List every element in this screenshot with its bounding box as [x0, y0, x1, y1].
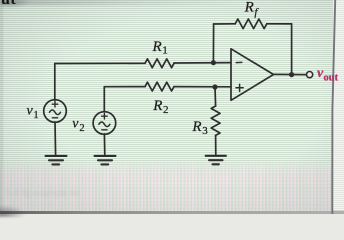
label Rf — [244, 0, 260, 18]
wire R2 left segment — [104, 86, 145, 88]
wire v1 bottom vertical — [54, 122, 57, 156]
op-amp U1 — [231, 49, 274, 101]
svg-text:R: R — [152, 39, 162, 55]
node inverting input junction — [211, 60, 216, 65]
svg-text:out: out — [324, 73, 339, 84]
wire feedback left vertical — [212, 24, 214, 63]
wire v1 top vertical — [54, 64, 56, 101]
label R2 — [152, 98, 168, 116]
resistor R3 — [211, 106, 220, 135]
svg-text:1: 1 — [33, 110, 38, 121]
resistor R2 — [145, 82, 174, 91]
wire R1 left segment — [55, 62, 145, 64]
svg-text:R: R — [152, 98, 162, 114]
wire R3 bottom segment — [215, 135, 217, 155]
svg-text:R: R — [244, 0, 254, 16]
wire output — [273, 73, 306, 75]
wire feedback right vertical — [291, 24, 293, 75]
svg-text:2: 2 — [163, 104, 169, 116]
svg-text:R: R — [191, 119, 201, 135]
svg-text:v: v — [72, 117, 79, 132]
wire R1 right segment — [174, 62, 231, 64]
svg-text:1: 1 — [162, 45, 168, 57]
svg-text:2: 2 — [79, 123, 84, 134]
label v1 — [27, 104, 39, 121]
page edge vertical line — [332, 0, 335, 214]
wire v2 top vertical — [103, 87, 105, 112]
source v1 — [44, 100, 67, 123]
svg-text:f: f — [254, 6, 259, 18]
node output junction — [289, 72, 294, 77]
ground below v1 — [46, 156, 67, 165]
ground below v2 — [95, 156, 116, 165]
terminal vout open circle — [307, 72, 313, 78]
label v2 — [72, 117, 84, 134]
svg-text:3: 3 — [202, 125, 208, 137]
label R3 — [191, 119, 208, 137]
wire R2 right segment — [174, 86, 231, 88]
ground below R3 — [206, 156, 226, 165]
resistor R1 — [145, 59, 174, 68]
resistor Rf — [235, 19, 267, 29]
wire R3 top segment — [214, 87, 217, 106]
label R1 — [152, 39, 168, 57]
wire feedback top left segment — [214, 23, 236, 25]
wire feedback top right segment — [267, 23, 292, 25]
wire v2 bottom vertical — [103, 134, 105, 156]
label vout — [317, 66, 339, 84]
node noninverting input junction — [212, 84, 217, 89]
source v2 — [93, 112, 116, 135]
